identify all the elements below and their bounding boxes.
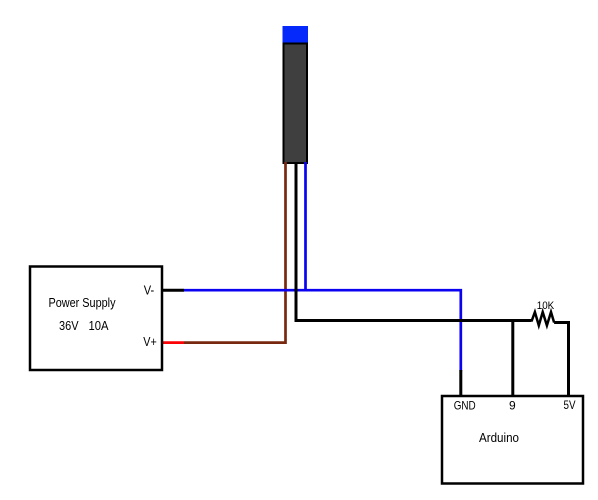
probe cap (blue top of temperature sensor) bbox=[283, 26, 309, 44]
wire: red V+ terminal segment bbox=[161, 341, 184, 344]
wire: probe blue lead down to V- bus bbox=[304, 162, 307, 290]
wire: blue V- bus from power supply to GND drop bbox=[184, 290, 461, 371]
wire: black GND segment (bottom of GND drop) bbox=[459, 370, 462, 395]
svg-text:10A: 10A bbox=[89, 318, 109, 333]
svg-text:Arduino: Arduino bbox=[479, 430, 519, 445]
svg-text:10K: 10K bbox=[537, 300, 555, 312]
power supply box bbox=[30, 267, 162, 371]
wire: probe black signal lead down and right to resistor bbox=[296, 162, 532, 321]
svg-text:9: 9 bbox=[509, 399, 516, 413]
probe body (temperature sensor) bbox=[284, 44, 308, 164]
svg-text:V+: V+ bbox=[143, 334, 157, 349]
svg-text:Power Supply: Power Supply bbox=[49, 295, 116, 310]
resistor R1 10K zigzag bbox=[532, 312, 555, 326]
wire: black V- terminal stub from power supply bbox=[161, 289, 184, 292]
wire: resistor right end to 5V vertical drop bbox=[554, 323, 568, 396]
wire: probe brown lead down and left to V+ bbox=[184, 162, 286, 343]
arduino box bbox=[442, 396, 583, 484]
svg-text:5V: 5V bbox=[564, 398, 576, 412]
svg-text:V-: V- bbox=[144, 283, 155, 298]
svg-text:36V: 36V bbox=[59, 318, 79, 333]
wire: Arduino pin 9 vertical drop bbox=[511, 321, 514, 396]
svg-text:GND: GND bbox=[454, 399, 476, 413]
